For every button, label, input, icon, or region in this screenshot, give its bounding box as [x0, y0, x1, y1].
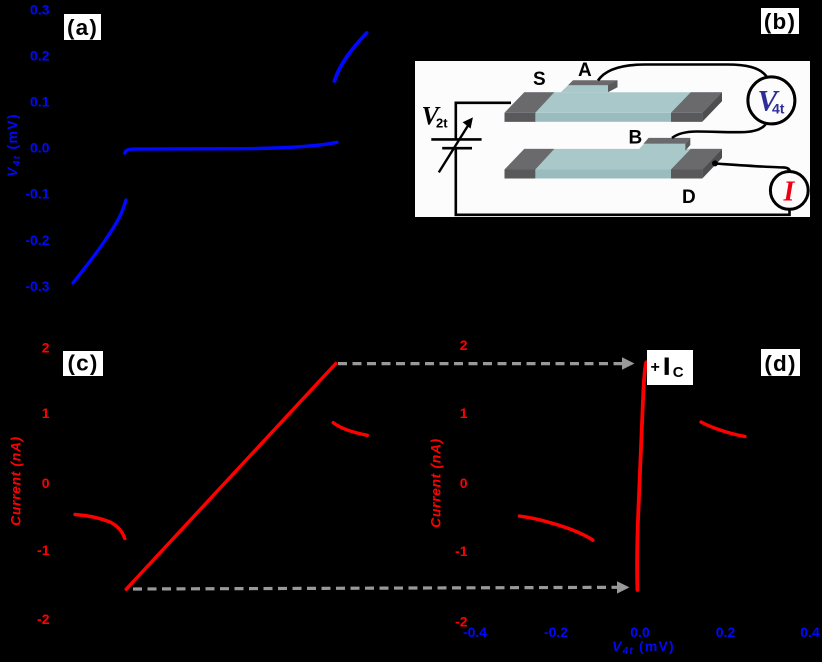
svg-text:-0.2: -0.2 [544, 624, 568, 640]
svg-text:0.4: 0.4 [800, 624, 820, 640]
panel a y-axis tick labels [25, 1, 49, 294]
electrode A top plate [568, 80, 618, 85]
panel a curve: lower branch [73, 200, 126, 283]
bar D right contact (drain) front [671, 170, 702, 179]
source V2t variable arrow [439, 117, 473, 172]
panel a label box (a) [64, 14, 101, 40]
bar S right contact front [671, 113, 702, 122]
panel b white background [415, 61, 810, 217]
panel c curve: left segment [75, 515, 125, 539]
svg-text:I: I [783, 177, 796, 208]
dashed arrow bottom (c to d) [133, 581, 630, 593]
wire: electrode A to voltmeter [598, 65, 767, 81]
panel d +Ic label box [647, 350, 693, 385]
bar S right contact top [671, 92, 722, 113]
panel d y-axis title Current (nA) [428, 438, 444, 528]
panel d curve: left segment [519, 516, 592, 540]
svg-text:+: + [651, 359, 660, 376]
panel c y-axis title Current (nA) [8, 436, 24, 526]
svg-text:2t: 2t [436, 116, 448, 131]
svg-text:1: 1 [42, 405, 50, 421]
svg-text:V4t (mV): V4t (mV) [612, 638, 675, 657]
svg-text:B: B [629, 128, 643, 149]
ammeter I [770, 172, 808, 210]
svg-text:Current (nA): Current (nA) [8, 436, 24, 526]
panel c curve: right segment [333, 423, 367, 436]
bar D left contact top [505, 149, 555, 170]
svg-text:S: S [533, 69, 546, 90]
svg-text:D: D [682, 187, 696, 208]
bar D right contact top [671, 149, 722, 170]
svg-text:4t: 4t [772, 100, 785, 116]
svg-text:0.2: 0.2 [716, 624, 736, 640]
bar D front face [505, 170, 703, 179]
svg-text:(a): (a) [67, 15, 98, 40]
bar D top face [505, 149, 723, 170]
bar S left contact top [505, 92, 555, 113]
source V2t plate long [431, 138, 481, 141]
panel b label box (b) [761, 8, 799, 34]
mesa under electrode B front face [638, 144, 686, 151]
junction dot on drain contact [712, 160, 718, 166]
voltmeter V4t [748, 77, 795, 124]
svg-text:2: 2 [42, 340, 50, 356]
bar S left contact (source end) front [505, 113, 536, 122]
dashed arrow top (c to d) [338, 357, 635, 369]
svg-text:0: 0 [42, 475, 50, 491]
svg-text:-0.4: -0.4 [463, 624, 487, 640]
svg-text:C: C [673, 364, 684, 381]
svg-text:-0.1: -0.1 [25, 186, 49, 202]
electrode B mesa side face [685, 138, 690, 151]
panel d x-axis tick labels [463, 624, 820, 640]
bar S front face [505, 113, 703, 122]
wire: electrode B to voltmeter [672, 125, 766, 139]
svg-text:(d): (d) [764, 351, 796, 376]
panel a curve: middle flat branch [125, 142, 337, 153]
svg-text:0.3: 0.3 [30, 1, 50, 17]
panel d label box (d) [761, 349, 800, 376]
panel d curve: central steep line [637, 362, 646, 590]
panel a y-axis title V4t (mV) [4, 113, 23, 177]
svg-text:1: 1 [460, 405, 468, 421]
panel d x-axis title V4t (mV) [612, 638, 675, 657]
svg-text:-2: -2 [37, 611, 50, 627]
svg-text:Current (nA): Current (nA) [428, 438, 444, 528]
bar S right contact side [702, 92, 722, 122]
bar S top face [505, 92, 723, 113]
svg-text:0.1: 0.1 [30, 94, 50, 110]
panel c y-axis tick labels [37, 340, 50, 627]
svg-text:(c): (c) [67, 351, 98, 376]
electrode A mesa side face [608, 80, 618, 92]
electrode B top plate [643, 138, 690, 144]
svg-text:0.0: 0.0 [30, 140, 50, 156]
panel a curve: upper branch [335, 33, 367, 81]
svg-text:-1: -1 [37, 542, 50, 558]
svg-text:-1: -1 [455, 543, 468, 559]
bar D right contact side [702, 149, 722, 179]
svg-text:-0.3: -0.3 [25, 278, 49, 294]
svg-text:V4t (mV): V4t (mV) [4, 113, 23, 177]
wire: drain contact to ammeter [715, 164, 790, 174]
svg-text:A: A [578, 60, 592, 81]
mesa under electrode A front face [561, 85, 608, 92]
panel c label box (c) [63, 351, 103, 377]
bar D left contact front [505, 170, 536, 179]
wire: source bottom lead / ground return [456, 148, 790, 215]
panel d y-axis tick labels [455, 337, 468, 629]
svg-text:0: 0 [460, 475, 468, 491]
svg-text:-0.2: -0.2 [25, 232, 49, 248]
svg-text:0.2: 0.2 [30, 48, 50, 64]
source V2t plate short [442, 147, 472, 150]
wire: source top lead to bar S [456, 103, 511, 140]
svg-text:(b): (b) [764, 9, 796, 34]
svg-text:2: 2 [460, 337, 468, 353]
panel d curve: right segment [701, 422, 745, 437]
panel c curve: main rising line [126, 364, 336, 590]
